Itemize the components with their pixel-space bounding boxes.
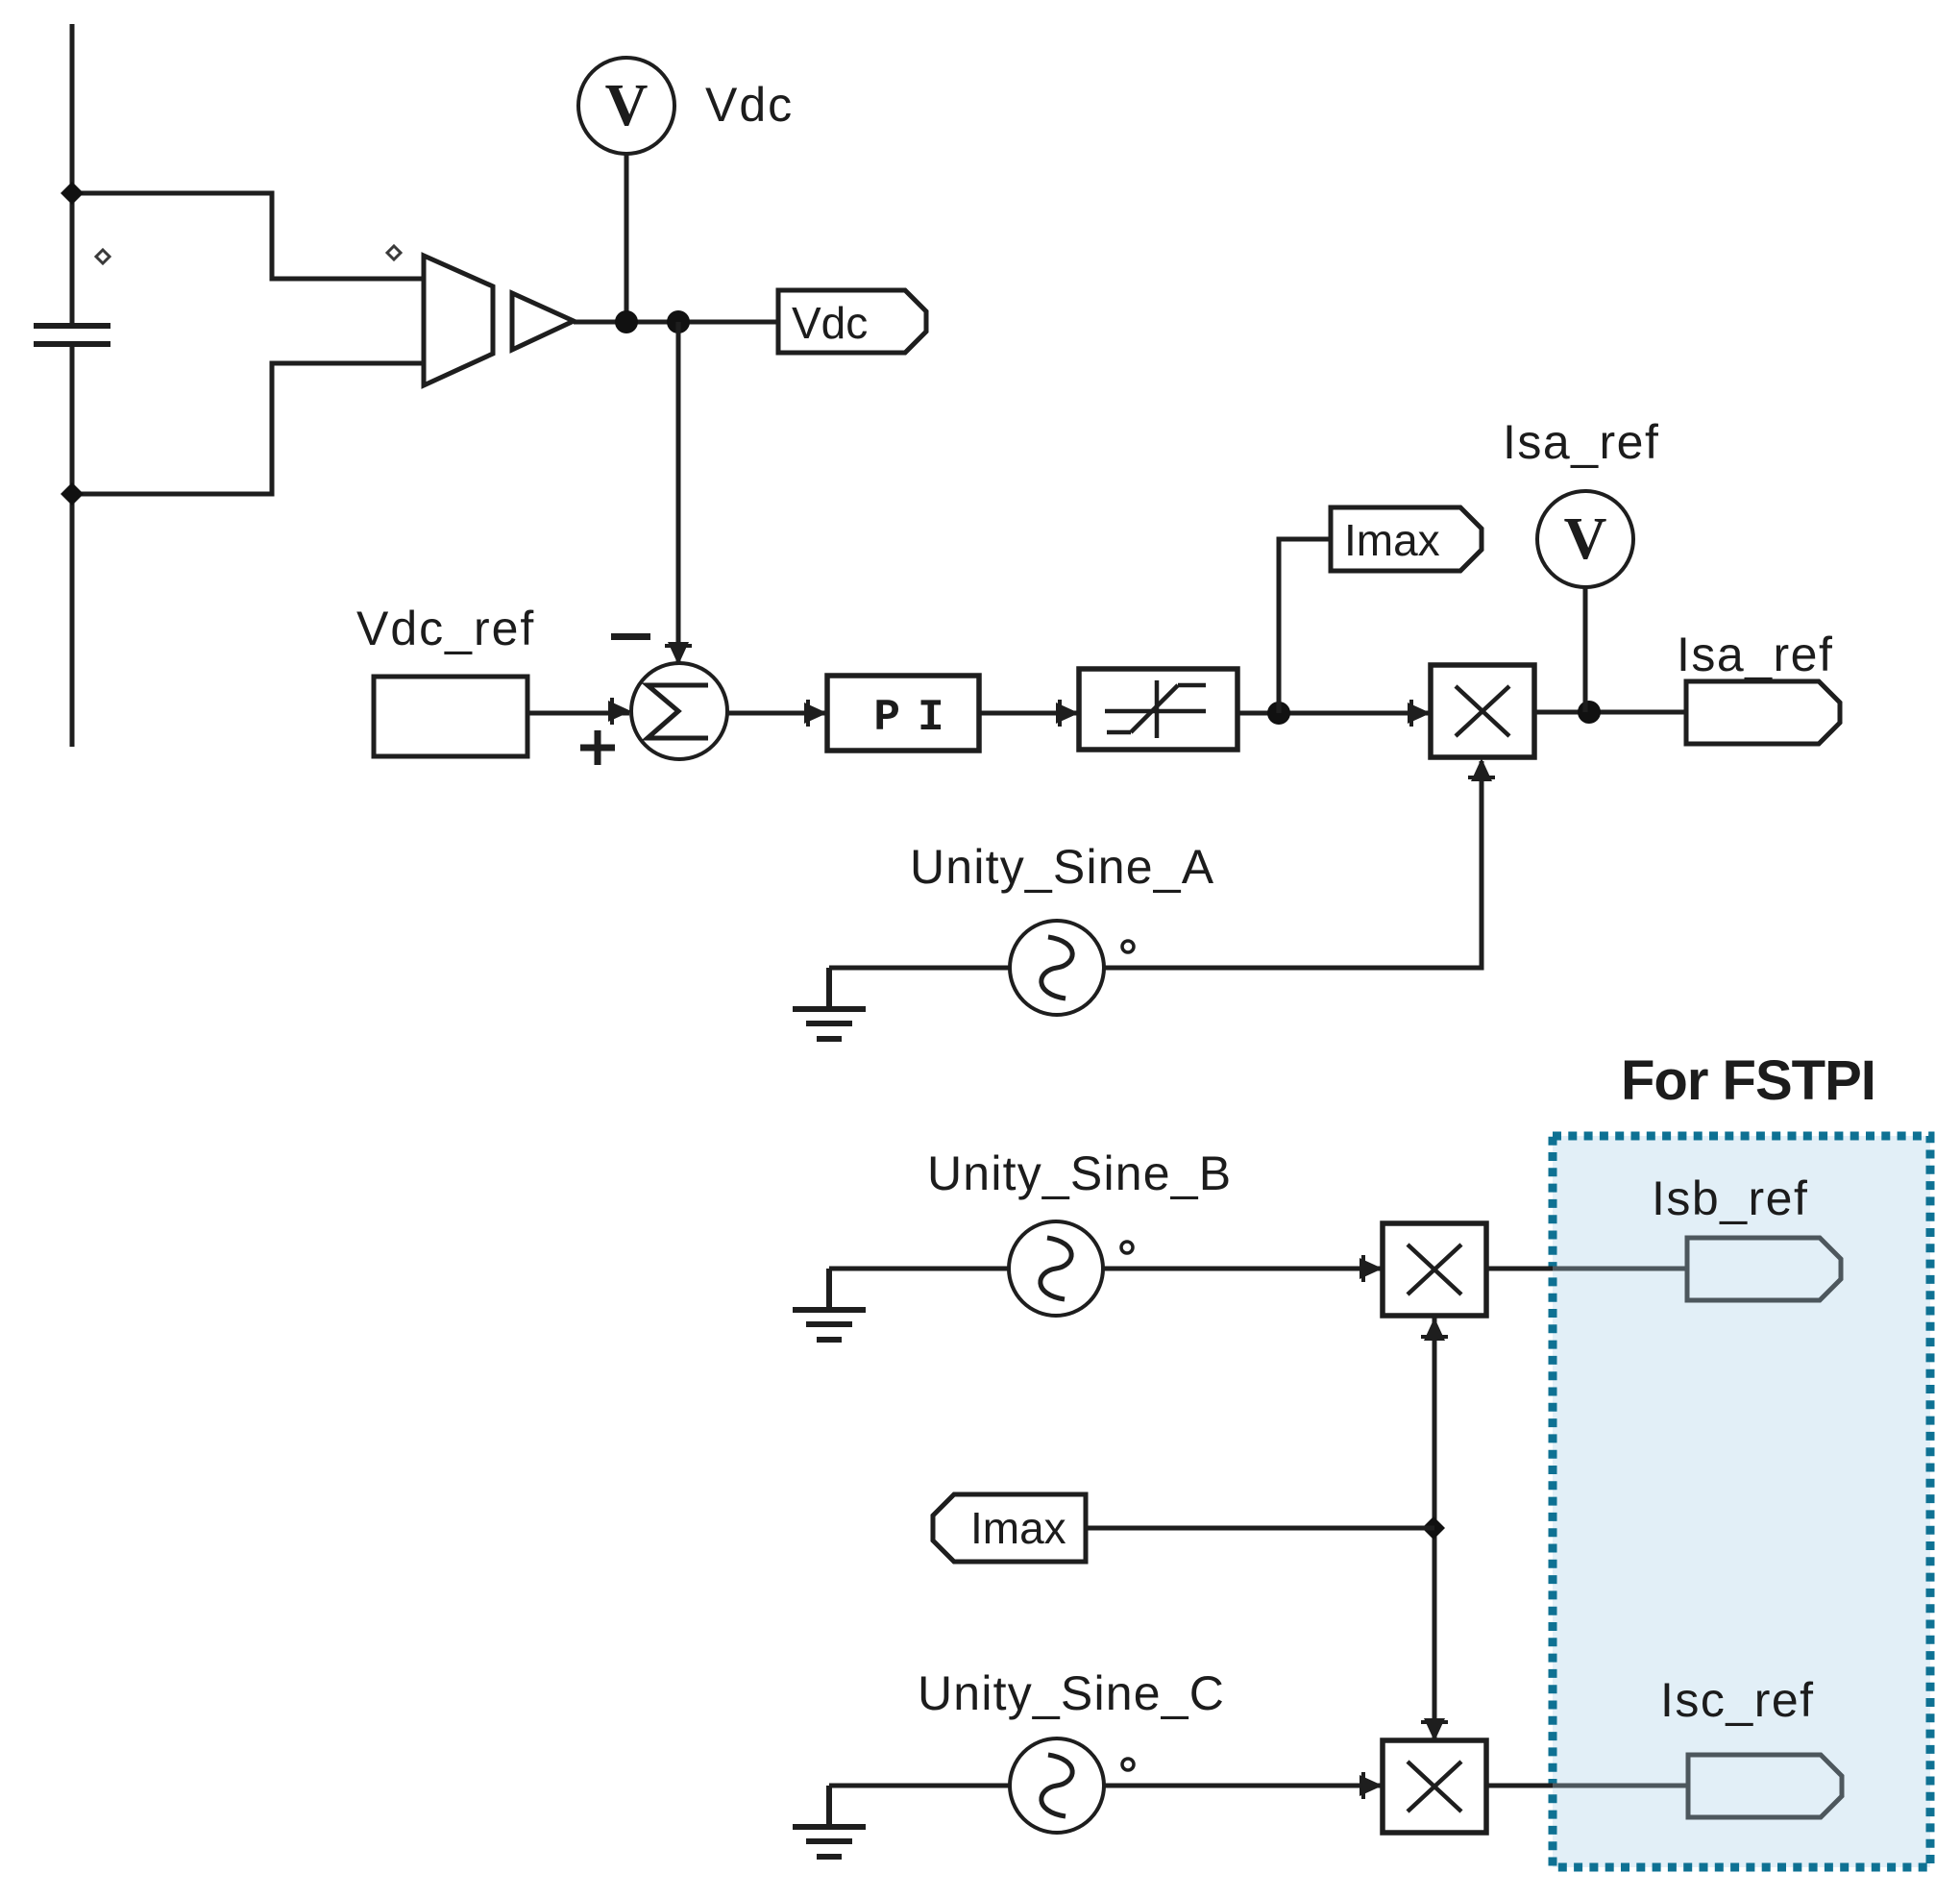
svg-text:Unity_Sine_A: Unity_Sine_A <box>910 840 1214 894</box>
svg-text:Vdc: Vdc <box>792 298 868 348</box>
svg-text:Isa_ref: Isa_ref <box>1503 415 1659 469</box>
svg-text:PI: PI <box>873 693 961 743</box>
svg-text:Unity_Sine_B: Unity_Sine_B <box>927 1146 1232 1200</box>
svg-text:V: V <box>605 73 649 138</box>
svg-text:Isc_ref: Isc_ref <box>1660 1673 1815 1727</box>
svg-text:Imax: Imax <box>1344 515 1440 565</box>
svg-text:Vdc_ref: Vdc_ref <box>356 602 535 655</box>
svg-text:Unity_Sine_C: Unity_Sine_C <box>918 1666 1225 1720</box>
svg-text:V: V <box>1564 506 1607 572</box>
svg-text:Isa_ref: Isa_ref <box>1677 628 1833 681</box>
svg-text:Isb_ref: Isb_ref <box>1652 1171 1808 1225</box>
svg-text:Imax: Imax <box>970 1503 1066 1553</box>
svg-text:For FSTPI: For FSTPI <box>1621 1049 1875 1112</box>
svg-text:Vdc: Vdc <box>705 78 794 132</box>
